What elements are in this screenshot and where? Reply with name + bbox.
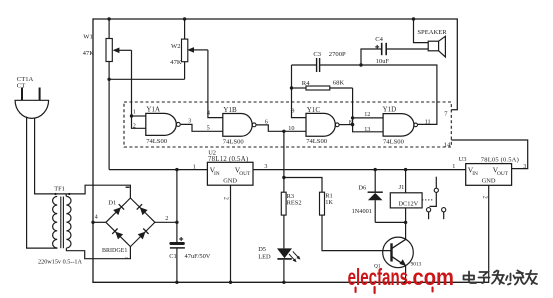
wire W1 bottom drop (108, 79, 110, 169)
diode D5 LED arrows (289, 254, 295, 261)
wire pins 12-13 feed (353, 88, 384, 132)
junction W2 top rail (183, 17, 186, 20)
relay J1 coil box (390, 193, 422, 208)
AC plug CT1A prong 2 (39, 88, 41, 101)
wire pin 12 stub (353, 117, 384, 119)
svg-text:Y1B: Y1B (223, 106, 237, 114)
wire W1 wiper to pins 1-2 (132, 50, 146, 128)
diode D6 triangle (368, 193, 383, 200)
svg-text:1: 1 (133, 109, 136, 116)
capacitor C1 plus mark (179, 238, 183, 240)
regulator U3 box (466, 164, 512, 186)
junction C4 tap (359, 63, 362, 66)
junction Y1B out node (282, 130, 285, 133)
op-amp gate Y1B (NAND 74LS00) (223, 114, 252, 137)
wire Y1C pin 9 riser (292, 65, 307, 118)
wire U2 GND lead (230, 185, 232, 282)
transformer TF1 primary winding (53, 196, 58, 248)
svg-text:C3: C3 (313, 51, 321, 58)
wire 12V rail U2 to U3 (253, 169, 466, 171)
resistor R4 body (306, 86, 330, 90)
regulator U2 box (207, 162, 253, 185)
wire common contact stub (435, 177, 437, 189)
svg-text:GND: GND (482, 177, 496, 184)
diode D5 LED bar (277, 258, 291, 260)
svg-text:~: ~ (125, 255, 129, 262)
relay J1 common contact (434, 188, 438, 192)
potentiometer W1 bottom lead (108, 62, 110, 80)
bridge diode upper-left (113, 207, 121, 215)
watermark char 友 (525, 271, 537, 285)
junction node RAW (175, 221, 178, 224)
wire NC contact stub (428, 212, 430, 219)
wire Y1B output to Y1C pin 10 (256, 125, 306, 131)
junction J1 rail (404, 168, 407, 171)
svg-text:com: com (413, 264, 455, 290)
capacitor C1 top plate (169, 242, 184, 245)
wire speaker top to GND rail (414, 19, 429, 43)
AC plug CT1A body (15, 100, 49, 118)
wire node RAW riser (176, 170, 178, 223)
svg-text:1N4001: 1N4001 (352, 208, 372, 215)
capacitor C4 plus mark (375, 46, 379, 48)
wire D6 to collector node (375, 221, 405, 223)
svg-text:D1: D1 (108, 200, 116, 207)
resistor R3 body (281, 192, 286, 215)
wire C4 left lead (361, 49, 382, 65)
wire C4 right lead (386, 48, 428, 50)
wire feedback bus (361, 65, 437, 124)
svg-text:Y1C: Y1C (307, 106, 321, 114)
wire raw DC to U2 VIN (109, 169, 207, 171)
wire plug right conductor (35, 118, 67, 194)
svg-text:78L05 (0.5A): 78L05 (0.5A) (481, 157, 519, 164)
wire J1 coil top lead (405, 170, 407, 193)
potentiometer W2 body (182, 39, 188, 62)
svg-text:Y1D: Y1D (383, 105, 397, 113)
diode D6 bar (368, 191, 383, 193)
relay J1 NO contact (442, 208, 446, 212)
svg-text:1: 1 (452, 163, 455, 170)
junction bridge-left / left rail (91, 221, 94, 224)
TF1 polarity dot primary (54, 193, 56, 195)
wire D6 top lead (374, 170, 376, 192)
svg-text:TF1: TF1 (54, 186, 65, 193)
potentiometer W2 wiper arrow (193, 49, 208, 51)
svg-text:C1: C1 (169, 253, 176, 260)
watermark char 电 (464, 272, 477, 284)
svg-text:47uF/50V: 47uF/50V (185, 253, 211, 260)
junction pin 12 tap (351, 116, 354, 119)
watermark drips (355, 287, 357, 294)
wire branch to R1 (284, 178, 322, 193)
svg-text:74LS00: 74LS00 (306, 138, 328, 145)
svg-text:U3: U3 (459, 156, 467, 163)
wire C3 left lead (292, 64, 317, 66)
svg-text:D6: D6 (358, 185, 367, 192)
wire D6 bottom lead (374, 200, 376, 222)
wire C3 right lead (320, 64, 361, 66)
left rail wire (GND left drop) (92, 18, 94, 283)
speaker SPEAKER body (428, 41, 438, 51)
AC plug CT1A prong 1 (21, 88, 23, 101)
wire C1 bottom lead (176, 248, 178, 282)
op-amp gate Y1D (NAND 74LS00) (383, 114, 414, 137)
svg-text:R4: R4 (302, 80, 310, 87)
TF1 polarity dot secondary (68, 193, 70, 195)
wire bridge right to node RAW (155, 221, 177, 223)
svg-text:SPEAKER: SPEAKER (417, 29, 447, 36)
transformer TF1 secondary winding (66, 196, 71, 248)
svg-text:68K: 68K (333, 80, 345, 87)
svg-text:2700P: 2700P (329, 51, 346, 58)
svg-text:2: 2 (133, 122, 136, 129)
transistor Q1 circle (383, 237, 414, 268)
wire Y1B out drop (283, 131, 285, 192)
svg-text:47K: 47K (170, 59, 182, 66)
svg-text:elecfans: elecfans (348, 264, 409, 290)
svg-text:14: 14 (444, 142, 451, 149)
svg-text:220w15v 0.5--1A: 220w15v 0.5--1A (38, 259, 83, 266)
svg-text:5: 5 (207, 125, 210, 132)
svg-text:2: 2 (165, 215, 168, 222)
junction C1-GND (175, 281, 178, 284)
svg-text:47K: 47K (83, 50, 95, 57)
bridge diode upper-right (140, 207, 148, 215)
junction RAW on VIN wire (175, 168, 178, 171)
svg-text:LED: LED (258, 253, 271, 260)
wire W2 wiper to pin 4 (208, 50, 223, 118)
svg-text:Y1A: Y1A (146, 106, 160, 114)
op-amp gate Y1C (NAND 74LS00) (306, 113, 335, 136)
wire W2 bottom lead (184, 62, 186, 80)
svg-text:IN: IN (214, 171, 220, 177)
junction W1 bottom (107, 78, 110, 81)
junction Y1C out (351, 123, 354, 126)
svg-text:74LS00: 74LS00 (146, 138, 168, 145)
capacitor C4 left plate (381, 43, 383, 55)
bridge diode lower-left (115, 232, 123, 240)
wire R4 right lead (330, 87, 353, 89)
svg-text:CT: CT (17, 82, 25, 89)
resistor R1 body (320, 192, 325, 215)
wire J1 coil bottom lead (405, 208, 407, 223)
svg-text:1K: 1K (325, 199, 333, 206)
relay J1 linkage dotted (422, 199, 434, 201)
wire TF1 secondary bottom (66, 246, 130, 258)
wire emitter to GND (405, 266, 407, 282)
diode D5 LED triangle (277, 248, 292, 258)
svg-text:J1: J1 (399, 184, 405, 191)
watermark char 子 (479, 272, 490, 283)
wire W1-W2 bottom link (109, 78, 185, 80)
wire R3 to LED (283, 215, 285, 248)
capacitor C3 right plate (319, 58, 321, 72)
svg-text:10: 10 (288, 125, 294, 132)
wire pin 14 to U3 VOUT (451, 140, 527, 169)
svg-text:10uF: 10uF (376, 58, 390, 65)
junction U2 GND rail (229, 281, 232, 284)
wire plug left conductor (27, 117, 58, 249)
svg-text:2: 2 (481, 196, 488, 199)
junction R1 branch (282, 176, 285, 179)
svg-text:W2: W2 (171, 43, 181, 50)
potentiometer W1 body (106, 39, 112, 62)
wire Y1A output to Y1B pin 5 (181, 124, 223, 131)
wire R4 left lead (292, 87, 307, 89)
potentiometer W1 wiper arrow (118, 49, 131, 51)
svg-text:4: 4 (207, 110, 210, 117)
svg-text:C4: C4 (375, 36, 383, 43)
svg-text:3: 3 (188, 118, 191, 125)
wire U3 GND lead (488, 185, 490, 283)
svg-text:1: 1 (193, 163, 196, 170)
junction D6 rail (374, 168, 377, 171)
transistor Q1 emitter stroke (392, 257, 403, 264)
bridge rectifier D1 diamond (106, 198, 155, 247)
svg-text:3: 3 (523, 163, 526, 170)
watermark char 发 (492, 271, 504, 285)
wire TF1 primary bottom (57, 247, 59, 249)
wire R1 to base (322, 215, 391, 251)
wire collector lead (405, 222, 407, 239)
svg-text:2: 2 (223, 197, 230, 200)
svg-text:12: 12 (364, 111, 370, 118)
op-amp gate Y1A (NAND 74LS00) (146, 113, 176, 135)
bridge diode lower-right (138, 232, 146, 240)
svg-text:D5: D5 (258, 246, 266, 253)
wire TF1 secondary top (65, 194, 67, 197)
wire C1 top lead (176, 222, 178, 242)
transistor Q1 collector stroke (392, 239, 405, 248)
wire NO contact stub (443, 212, 445, 219)
junction speaker GND (412, 17, 415, 20)
svg-text:RES2: RES2 (287, 199, 302, 206)
potentiometer W1 top lead (108, 19, 110, 39)
capacitor C1 bottom plate (170, 247, 185, 249)
svg-text:4: 4 (95, 214, 98, 221)
svg-text:74LS00: 74LS00 (383, 138, 405, 145)
transistor Q1 base bar (390, 243, 392, 261)
svg-text:OUT: OUT (497, 171, 509, 177)
svg-text:GND: GND (223, 178, 237, 185)
svg-text:OUT: OUT (239, 171, 251, 177)
relay J1 NC contact (427, 208, 431, 212)
bridge minus mark (126, 186, 130, 188)
junction pins 1-2 tie (130, 114, 133, 117)
junction collector node (404, 221, 407, 224)
74LS00 IC dashed outline (124, 102, 451, 147)
svg-text:W1: W1 (83, 33, 93, 40)
top ground rail (node GND top) (93, 18, 457, 20)
svg-text:DC12V: DC12V (398, 200, 418, 207)
junction emitter GND (404, 281, 407, 284)
capacitor C4 right plate (385, 43, 387, 55)
svg-text:IN: IN (472, 171, 478, 177)
svg-text:74LS00: 74LS00 (223, 138, 245, 145)
junction W1 top rail (107, 17, 110, 20)
wire pin 1 stub (132, 115, 146, 117)
potentiometer W2 top lead (184, 19, 186, 39)
bottom ground rail (node GND bottom) (92, 281, 488, 283)
right rail wire (GND to pin 7) (451, 18, 457, 109)
wire LED to GND (283, 260, 285, 283)
capacitor C3 left plate (316, 58, 318, 72)
wire bridge left to GND rail (93, 221, 106, 223)
watermark char 烧 (506, 271, 524, 285)
junction R4 left (290, 86, 293, 89)
transformer TF1 core (60, 197, 62, 249)
relay J1 armature (430, 192, 437, 206)
wire Y1C output (339, 124, 352, 126)
junction LED GND (282, 281, 285, 284)
svg-text:BRIDGE1: BRIDGE1 (102, 248, 127, 254)
